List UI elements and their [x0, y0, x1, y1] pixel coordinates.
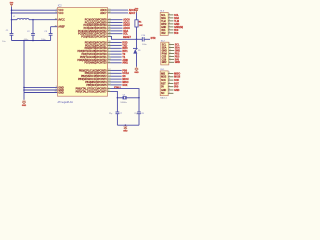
svg-text:5: 5 — [169, 85, 170, 87]
svg-text:PC2(ADC2)/PCINT10: PC2(ADC2)/PCINT10 — [83, 24, 107, 27]
wire 5V to R1 — [135, 13, 139, 20]
wire C14 to DTR label — [144, 37, 150, 41]
svg-text:PC4(ADC4/SDA)/PCINT12: PC4(ADC4/SDA)/PCINT12 — [78, 30, 107, 33]
IC2 right pin 28 PC5(ADC5/SCL)/PCINT13 wire and net label SCL — [78, 32, 128, 35]
svg-text:GN2: GN2 — [162, 62, 167, 64]
IC2 left pin 4 VCC — [56, 9, 64, 12]
IC2 right pin 31 PD1(TXD)/PCINT17 wire and net label TXD — [85, 44, 127, 47]
IC2 left pin 18 AVCC — [55, 18, 66, 21]
wire diode to ground — [135, 54, 139, 67]
svg-text:PB6(XTAL1/TOSC1)/PCINT6: PB6(XTAL1/TOSC1)/PCINT6 — [76, 88, 108, 91]
svg-text:3: 3 — [169, 79, 170, 81]
wire VCC pin4 horizontal — [12, 8, 58, 12]
connector SV1 pin 7 NC wire and net label — [161, 92, 173, 95]
IC2 right pin 22 ADC7 wire and net label ADC7 — [100, 12, 136, 15]
wire reset node to C14 — [137, 37, 143, 41]
wire AREF C3 to IC pin20 — [51, 27, 58, 34]
svg-text:PB7(XTAL2/TOSC2)/PCINT7: PB7(XTAL2/TOSC2)/PCINT7 — [76, 90, 108, 93]
svg-text:1: 1 — [169, 14, 170, 16]
svg-text:PB2(SS/OC1B)/PCINT2: PB2(SS/OC1B)/PCINT2 — [81, 75, 107, 78]
svg-text:16MHz: 16MHz — [120, 102, 126, 104]
wire GND pin21 horizontal — [24, 91, 58, 95]
svg-text:SS: SS — [122, 75, 126, 78]
svg-text:SDA: SDA — [123, 30, 128, 33]
svg-text:MIS: MIS — [161, 73, 166, 75]
IC2 left pin 6 VCC — [56, 12, 64, 15]
capacitor C7 22p left — [109, 98, 123, 125]
svg-text:7: 7 — [169, 92, 170, 94]
wire crystal left — [117, 96, 123, 100]
IC2 right pin 32 PD2(INT0)/PCINT18 wire and net label INT0 — [85, 47, 129, 50]
IC2 right pin 2 PD4(T0/XCK)/PCINT20 wire and net label T0 — [81, 53, 125, 56]
svg-text:MISO: MISO — [174, 72, 180, 75]
ground symbol reset — [134, 67, 139, 74]
svg-text:VD1: VD1 — [161, 30, 166, 32]
svg-text:GND: GND — [174, 89, 180, 92]
IC2 right pin 19 ADC6 wire and net label ADC6 — [100, 9, 136, 12]
svg-text:SDA: SDA — [175, 46, 180, 49]
inductor L1 — [13, 16, 29, 20]
svg-text:PD2: PD2 — [175, 52, 180, 55]
svg-text:ADC0: ADC0 — [123, 19, 130, 22]
svg-text:PC6(/RESET)/PCINT14: PC6(/RESET)/PCINT14 — [81, 35, 107, 38]
IC2 name — [58, 5, 62, 8]
svg-text:PVM: PVM — [162, 53, 167, 55]
junction rail VCC pin4 — [11, 9, 13, 11]
capacitor C3 — [41, 31, 52, 41]
svg-text:MISO: MISO — [122, 81, 128, 84]
svg-text:AIN1: AIN1 — [122, 62, 128, 65]
svg-text:SCL: SCL — [161, 15, 166, 17]
wire crystal right — [126, 96, 139, 100]
svg-text:GND: GND — [22, 105, 27, 107]
svg-text:2: 2 — [169, 46, 170, 48]
svg-text:6: 6 — [169, 58, 170, 60]
IC2 right pin 9 PD5(T1/OC0B)/PCINT21 wire and net label T1 — [80, 56, 126, 59]
svg-text:TLM: TLM — [161, 21, 166, 23]
svg-text:MOS: MOS — [161, 77, 167, 79]
IC2 right pin 14 PB2(SS/OC1B)/PCINT2 wire and net label SS — [81, 75, 126, 78]
svg-text:PD3: PD3 — [175, 55, 180, 58]
svg-text:AVCC: AVCC — [58, 19, 65, 22]
wire GND pin3 horizontal — [24, 86, 58, 90]
svg-text:6: 6 — [169, 29, 170, 31]
svg-text:GND: GND — [161, 90, 166, 92]
connector SL3 pin 3 TLM wire and net label TLM — [161, 20, 179, 23]
IC2 right pin 24 PC1(ADC1)/PCINT9 wire and net label ADC1 — [85, 21, 131, 24]
svg-text:PB4(MISO)/PCINT4: PB4(MISO)/PCINT4 — [85, 81, 107, 84]
svg-text:WPR: WPR — [161, 24, 167, 26]
svg-text:GND: GND — [161, 27, 166, 29]
diode D1 — [133, 48, 141, 53]
svg-text:PB0: PB0 — [122, 69, 127, 72]
svg-text:ADC6: ADC6 — [100, 9, 107, 12]
connector SL2 pin 5 CS5 wire and net label PD3 — [162, 55, 180, 58]
svg-text:AREF: AREF — [58, 26, 65, 29]
svg-text:5V0: 5V0 — [174, 86, 179, 89]
IC2 right pin 23 PC0(ADC0)/PCINT8 wire and net label ADC0 — [85, 18, 131, 21]
svg-text:GND: GND — [174, 23, 180, 26]
connector SV1 pin 5 5V wire and net label 5V0 — [161, 85, 179, 88]
svg-text:5V0: 5V0 — [175, 58, 180, 61]
svg-text:PC5(ADC5/SCL)/PCINT13: PC5(ADC5/SCL)/PCINT13 — [78, 33, 107, 36]
IC2 right pin 11 PD7(AIN1)/PCINT23 wire and net label AIN1 — [85, 62, 129, 65]
svg-text:3: 3 — [169, 49, 170, 51]
svg-text:GND: GND — [162, 50, 167, 52]
capacitor C8 22p right — [134, 98, 144, 125]
svg-text:TLM: TLM — [174, 20, 179, 23]
wire GND pin5 horizontal — [24, 88, 58, 92]
capacitor C14 100n DTR reset cap — [141, 35, 147, 46]
wire ground rail horizontal — [12, 39, 51, 43]
junction crystal gnd tee — [125, 124, 127, 126]
wire ground drop vertical — [22, 41, 26, 100]
IC2 right pin 8 PB7(XTAL2/TOSC2)/PCINT7 wire to crystal left — [76, 90, 118, 98]
ground symbol crystal — [123, 125, 128, 132]
connector SL3 pin 4 WPR wire and net label GND — [161, 23, 180, 26]
IC2 right pin 13 PB1(OC1A)/PCINT1 wire and net label OC1A — [85, 72, 130, 75]
svg-text:VCC: VCC — [58, 12, 63, 15]
connector SL3 pin 6 VD1 wire and net label 5V0 — [161, 29, 179, 32]
svg-text:ADC2: ADC2 — [123, 24, 130, 27]
svg-text:4: 4 — [169, 52, 170, 54]
connector SL2 body — [161, 40, 169, 65]
connector SL2 pin 3 GND wire and net label GND — [162, 49, 181, 52]
IC2 right pin 26 PC3(ADC3)/PCINT11 wire and net label ADC3 — [84, 27, 131, 30]
svg-text:5V0: 5V0 — [174, 29, 179, 32]
svg-text:1: 1 — [169, 72, 170, 74]
svg-text:PC0(ADC0)/PCINT8: PC0(ADC0)/PCINT8 — [85, 19, 107, 22]
svg-text:RXD: RXD — [122, 41, 127, 44]
svg-text:10K: 10K — [139, 25, 143, 27]
crystal Q1 16MHz — [120, 95, 126, 104]
svg-text:MOSI: MOSI — [122, 78, 128, 81]
connector SL2 pin 7 GN2 wire and net label GND — [162, 61, 181, 64]
svg-text:10u: 10u — [2, 41, 5, 43]
svg-text:VCC: VCC — [58, 9, 63, 12]
ground symbol left — [22, 100, 27, 107]
connector SV1 pin 4 RST wire and net label RST — [161, 82, 179, 85]
svg-text:PD0(RXD)/PCINT16: PD0(RXD)/PCINT16 — [85, 41, 107, 44]
IC2 left pin 3 GND — [56, 86, 64, 89]
svg-text:SCL: SCL — [174, 14, 179, 17]
IC2 right pin 30 PD0(RXD)/PCINT16 wire and net label RXD — [85, 41, 128, 44]
svg-text:3: 3 — [169, 20, 170, 22]
svg-text:TXD: TXD — [122, 44, 127, 47]
connector SV1 pin 1 MIS wire and net label MISO — [161, 72, 180, 75]
svg-text:RST: RST — [174, 82, 179, 85]
resistor R1 10K — [135, 20, 143, 27]
IC2 right pin 15 PB3(MOSI/OC2A)/PCINT3 wire and net label MOSI — [78, 78, 129, 81]
svg-text:SCK: SCK — [122, 84, 127, 87]
IC2 right pin 10 PD6(AIN0/OC0A)/PCINT22 wire and net label AIN0 — [77, 59, 128, 62]
svg-text:PD2(INT0)/PCINT18: PD2(INT0)/PCINT18 — [85, 47, 108, 50]
svg-text:PD3(INT1/OC2B)/PCINT19: PD3(INT1/OC2B)/PCINT19 — [78, 50, 108, 53]
junction reset node — [136, 39, 138, 41]
connector SL3 pin 2 SDA wire and net label SDA — [161, 17, 179, 20]
junction crystal left — [117, 97, 119, 99]
svg-text:ADC7: ADC7 — [100, 12, 107, 15]
junction rail VCC pin6 — [11, 12, 13, 14]
connector SL3 pin 5 GND wire and net label GND(M) — [161, 26, 183, 29]
svg-text:DTR: DTR — [151, 37, 156, 40]
IC2 right pin 29 PC6(/RESET)/PCINT14 and RESET wire with jog — [81, 35, 136, 39]
svg-text:2: 2 — [169, 75, 170, 77]
svg-text:6: 6 — [169, 89, 170, 91]
junction drop pin3 — [23, 87, 25, 89]
IC2 right pin 12 PB0(ICP1/CLKO)/PCINT0 wire and net label PB0 — [79, 69, 128, 72]
connector SL3 body — [160, 11, 168, 36]
svg-text:RESET: RESET — [123, 36, 132, 39]
svg-text:ADC3: ADC3 — [123, 27, 130, 30]
svg-text:AIN0: AIN0 — [122, 59, 128, 62]
svg-text:4: 4 — [169, 23, 170, 25]
svg-text:SDA: SDA — [174, 17, 179, 20]
svg-text:4: 4 — [169, 82, 170, 84]
svg-text:5V0: 5V0 — [174, 32, 179, 35]
svg-text:PB0(ICP1/CLKO)/PCINT0: PB0(ICP1/CLKO)/PCINT0 — [79, 69, 107, 72]
svg-text:PC3(ADC3)/PCINT11: PC3(ADC3)/PCINT11 — [84, 27, 108, 30]
svg-text:PB5(SCK)/PCINT5: PB5(SCK)/PCINT5 — [86, 84, 107, 87]
IC2 right pin 17 PB5(SCK)/PCINT5 wire and net label SCK — [86, 84, 127, 87]
IC2 right pin 25 PC2(ADC2)/PCINT10 wire and net label ADC2 — [83, 24, 130, 27]
svg-text:GND: GND — [58, 91, 64, 94]
wire AVCC inductor to IC pin18 — [29, 18, 58, 22]
IC2 value ATmega48-AU — [58, 101, 74, 104]
IC2 right pin 27 PC4(ADC4/SDA)/PCINT12 wire and net label SDA — [78, 30, 129, 33]
capacitor C2 — [24, 20, 35, 41]
svg-text:PD5(T1/OC0B)/PCINT21: PD5(T1/OC0B)/PCINT21 — [80, 56, 107, 59]
svg-text:PC1(ADC1)/PCINT9: PC1(ADC1)/PCINT9 — [85, 21, 107, 24]
connector SV1 body — [160, 69, 168, 96]
svg-text:VD2: VD2 — [161, 33, 166, 35]
connector SL3 pin 7 VD2 wire and net label 5V0 — [161, 32, 179, 35]
svg-text:5V: 5V — [161, 87, 164, 89]
svg-text:7: 7 — [169, 61, 170, 63]
IC2 left pin 21 GND — [55, 91, 64, 94]
svg-text:INT1: INT1 — [122, 50, 128, 53]
connector SL2 pin 6 CS6 wire and net label 5V0 — [162, 58, 180, 61]
svg-text:PB1(OC1A)/PCINT1: PB1(OC1A)/PCINT1 — [85, 72, 107, 75]
junction gnd rail C2 — [32, 40, 34, 42]
connector SV1 value — [160, 97, 168, 100]
svg-text:GND(M): GND(M) — [174, 26, 183, 29]
connector SL3 pin 1 SCL wire and net label SCL — [161, 14, 179, 17]
IC2 right pin 7 PB6(XTAL1/TOSC1)/PCINT6 wire to crystal right — [76, 86, 139, 98]
power symbol 5V0 above R1 — [135, 8, 139, 12]
IC2 ATmega48 body — [58, 8, 108, 97]
svg-text:SCK: SCK — [174, 79, 179, 82]
junction crystal right — [138, 97, 140, 99]
svg-text:PB3(MOSI/OC2A)/PCINT3: PB3(MOSI/OC2A)/PCINT3 — [78, 78, 107, 81]
capacitor C1 — [2, 20, 13, 43]
wire 5V rail vertical — [10, 7, 14, 20]
wire AVCC rail to inductor — [12, 18, 18, 22]
svg-text:ADC1: ADC1 — [123, 21, 130, 24]
svg-text:7: 7 — [169, 32, 170, 34]
junction gnd rail drop — [23, 40, 25, 42]
svg-text:IC2: IC2 — [58, 5, 62, 8]
svg-text:2: 2 — [169, 17, 170, 19]
junction rail AVCC branch — [11, 19, 13, 21]
connector SV1 pin 3 SCK wire and net label SCK — [161, 79, 179, 82]
connector SV1 pin 2 MOS wire and net label MOSI — [161, 75, 180, 78]
svg-text:GND: GND — [175, 49, 181, 52]
power symbol 5V0 top-left — [10, 3, 14, 7]
svg-text:MOSI: MOSI — [174, 76, 180, 79]
svg-text:INT0: INT0 — [122, 47, 128, 50]
svg-text:PD6(AIN0/OC0A)/PCINT22: PD6(AIN0/OC0A)/PCINT22 — [77, 59, 107, 62]
svg-text:GND: GND — [123, 131, 128, 133]
IC2 right pin 16 PB4(MISO)/PCINT4 wire and net label MISO — [85, 81, 128, 84]
svg-text:NC: NC — [161, 93, 165, 95]
svg-text:ADC7: ADC7 — [129, 12, 136, 15]
wire crystal ground rail — [117, 123, 139, 127]
IC2 left pin 5 GND — [56, 89, 64, 92]
wire R1 to reset junction — [135, 27, 139, 39]
svg-text:SCL: SCL — [162, 45, 167, 47]
wire VCC pin6 horizontal — [12, 11, 58, 15]
IC2 left pin 20 AREF — [55, 25, 66, 28]
svg-text:PD7(AIN1)/PCINT23: PD7(AIN1)/PCINT23 — [85, 62, 108, 65]
svg-text:OC1A: OC1A — [122, 72, 129, 75]
connector SV1 pin 6 GND wire and net label GND — [161, 89, 180, 92]
connector SL2 pin 1 SCL wire and net label SCL — [162, 43, 180, 46]
svg-text:ATmega48-AU: ATmega48-AU — [58, 101, 74, 104]
junction drop pin5 — [23, 89, 25, 91]
svg-text:RST: RST — [161, 83, 166, 85]
svg-text:GND: GND — [175, 61, 181, 64]
connector SL2 pin 2 SDA wire and net label SDA — [162, 46, 180, 49]
IC2 right pin 1 PD3(INT1/OC2B)/PCINT19 wire and net label INT1 — [78, 50, 129, 53]
svg-text:1: 1 — [169, 43, 170, 45]
svg-text:SCK: SCK — [161, 80, 166, 82]
junction AVCC at C2 — [32, 19, 34, 21]
svg-text:SCL: SCL — [123, 33, 128, 36]
svg-text:SCL: SCL — [175, 44, 180, 47]
svg-text:5: 5 — [169, 55, 170, 57]
connector SL2 pin 4 PVM wire and net label PD2 — [162, 52, 180, 55]
svg-text:PD1(TXD)/PCINT17: PD1(TXD)/PCINT17 — [85, 44, 107, 47]
svg-text:GND: GND — [134, 72, 139, 74]
svg-text:5: 5 — [169, 26, 170, 28]
wire reset node to diode — [135, 39, 139, 50]
svg-text:CS6: CS6 — [162, 59, 167, 61]
svg-text:CS5: CS5 — [162, 56, 167, 58]
net label DTR — [151, 37, 156, 40]
svg-text:PD4(T0/XCK)/PCINT20: PD4(T0/XCK)/PCINT20 — [81, 53, 107, 56]
